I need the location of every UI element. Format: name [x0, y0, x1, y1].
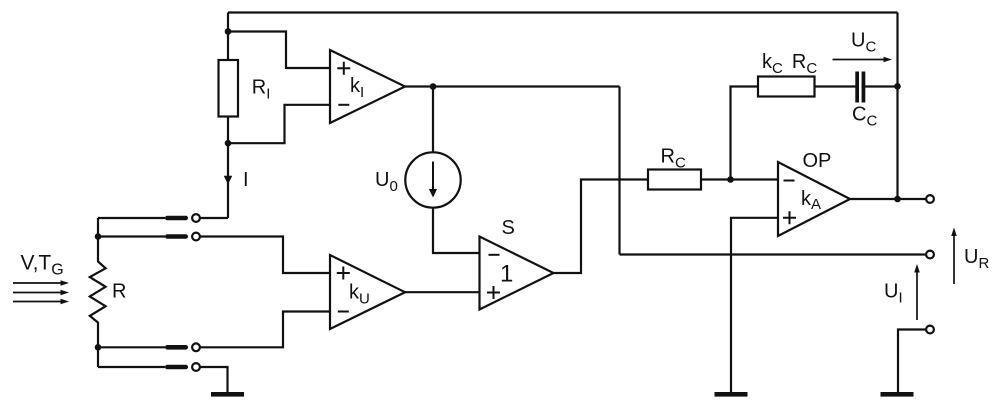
junction node R_I top	[225, 28, 232, 35]
svg-text:R: R	[112, 281, 126, 303]
wire junction to k_I - input	[228, 105, 330, 143]
wire terminal row 2 to left rail	[98, 235, 165, 237]
terminal circle U_R	[926, 251, 934, 259]
terminal bar row 3	[165, 345, 188, 350]
junction node U_0 tap	[430, 83, 437, 90]
junction node C_C right	[894, 83, 901, 90]
junction node feedback	[727, 176, 734, 183]
junction node left rail row3	[95, 344, 102, 351]
pin marker S minus	[489, 254, 500, 256]
wire vertical into R_I top	[227, 13, 229, 61]
arrow V,T_G 2	[13, 292, 61, 294]
arrow current I	[224, 176, 233, 185]
pin marker S plus	[487, 286, 500, 299]
pin marker OP plus	[783, 211, 796, 224]
arrow U_I	[916, 272, 918, 320]
terminal circle op-amp output	[926, 195, 934, 203]
wire U_0 top connection	[432, 87, 434, 153]
svg-text:V,TG: V,TG	[21, 252, 64, 279]
wire op-amp output to terminal	[850, 198, 926, 200]
svg-text:UC: UC	[851, 30, 876, 56]
pin marker k_U minus	[338, 311, 349, 313]
wire node R_I top to k_I + input	[228, 32, 330, 69]
svg-text:RC: RC	[661, 146, 686, 172]
pin marker OP minus	[784, 180, 795, 182]
op-amp k_U triangle	[330, 255, 405, 329]
ground U_I	[881, 392, 914, 397]
svg-text:U0: U0	[375, 169, 398, 195]
terminal circle row 4	[192, 363, 200, 371]
arrow V,T_G 3	[13, 301, 61, 303]
terminal circle row 1	[192, 214, 200, 222]
svg-text:UR: UR	[964, 246, 989, 272]
junction node R_I bottom	[225, 140, 232, 147]
svg-text:kC RC: kC RC	[762, 51, 817, 77]
resistor kC RC body	[758, 77, 815, 97]
junction node op-amp output	[894, 196, 901, 203]
op-amp OP k_A triangle	[778, 162, 850, 236]
svg-text:CC: CC	[852, 104, 877, 130]
op-amp S triangle	[480, 237, 554, 310]
terminal circle row 3	[192, 343, 200, 351]
wire current I branch down to terminal row 1	[196, 143, 228, 218]
pin marker k_I plus	[337, 62, 350, 75]
ground op-amp	[715, 392, 748, 397]
svg-text:RI: RI	[252, 77, 271, 103]
wire C_C to node x=898	[862, 85, 898, 87]
wire k_U output to S + input	[405, 291, 480, 293]
wire op-amp + input down to ground	[731, 218, 778, 392]
terminal bar row 1	[165, 216, 188, 221]
wire terminal row 4 to ground	[196, 367, 228, 392]
wire U_R line to output terminal	[620, 253, 927, 255]
arrow U_R	[953, 236, 955, 284]
wire U_0 bottom to S - input	[433, 208, 480, 253]
wire feedback node up to kC RC box	[731, 87, 759, 180]
wire kC RC box to C_C	[815, 85, 857, 87]
svg-text:UI: UI	[884, 281, 903, 307]
wire top bus from R_I top to output column	[228, 11, 898, 13]
current source U_0 arrow	[429, 162, 437, 198]
ground left	[211, 392, 244, 397]
terminal bar row 4	[165, 365, 188, 370]
wire k_I output to right column x=619	[405, 85, 620, 87]
op-amp k_I triangle	[330, 50, 405, 123]
terminal circle U_I	[926, 326, 934, 334]
wire R_I bottom to junction	[227, 117, 229, 144]
wire S output up to R_C	[554, 180, 649, 274]
wire x=898 vertical from top bus down to op-amp output	[896, 13, 898, 200]
svg-text:1: 1	[500, 261, 513, 288]
wire terminal row 2 to k_U + input	[196, 237, 330, 274]
resistor R_C body	[648, 170, 701, 190]
arrow U_C	[833, 59, 885, 61]
capacitor C_C plates	[855, 72, 865, 103]
wire left rail with resistor R zigzag	[90, 218, 106, 367]
pin marker k_U plus	[337, 267, 350, 280]
svg-text:S: S	[502, 217, 515, 239]
wire terminal row 4 to left rail	[98, 366, 165, 368]
svg-text:OP: OP	[803, 150, 832, 172]
svg-text:I: I	[243, 169, 249, 191]
terminal circle row 2	[192, 233, 200, 241]
wire terminal row 3 to k_U - input	[196, 312, 330, 348]
wire R_C to op-amp - input	[701, 178, 778, 180]
wire terminal row 1 to left rail	[98, 217, 165, 219]
wire x=619 down to U_R line	[618, 87, 620, 255]
pin marker k_I minus	[338, 104, 349, 106]
terminal bar row 2	[165, 234, 188, 239]
current source U_0 circle	[405, 152, 460, 207]
arrow V,T_G 1	[13, 57, 957, 320]
resistor R_I body	[219, 60, 239, 117]
wire U_I terminal to ground	[898, 330, 926, 393]
wire terminal row 3 to left rail	[98, 346, 165, 348]
junction node left rail row2	[95, 233, 102, 240]
